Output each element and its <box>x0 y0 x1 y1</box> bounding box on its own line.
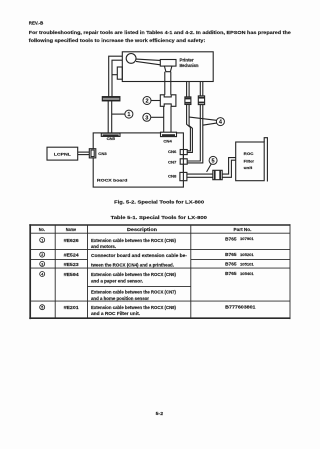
wire CN8 to bead <box>187 173 213 175</box>
ROCX board box <box>93 133 183 187</box>
svg-text:1: 1 <box>127 112 130 118</box>
svg-text:#E523: #E523 <box>64 262 80 267</box>
svg-text:and a home position sensor: and a home position sensor <box>91 296 149 301</box>
svg-text:CN3: CN3 <box>98 152 106 156</box>
no 4 circled <box>40 272 45 277</box>
wire head cable T to H <box>164 72 166 95</box>
T connector head <box>160 60 176 72</box>
wire home-position cable lower to CN7 <box>187 105 200 161</box>
svg-text:Part No.: Part No. <box>234 227 252 232</box>
motor tab on left of printer mechanism <box>117 67 122 79</box>
table row 4 <box>40 271 254 301</box>
svg-text:105401: 105401 <box>240 272 254 276</box>
svg-text:B765: B765 <box>225 236 237 241</box>
svg-text:5: 5 <box>212 159 215 165</box>
svg-text:Printer: Printer <box>180 57 195 62</box>
svg-text:and a ROC Filter unit.: and a ROC Filter unit. <box>91 311 140 316</box>
svg-text:5: 5 <box>41 306 43 310</box>
svg-text:REV.-B: REV.-B <box>29 20 44 25</box>
svg-text:3: 3 <box>145 115 148 121</box>
svg-text:#E524: #E524 <box>64 252 80 257</box>
ROC box top-right step <box>264 138 267 182</box>
column divider No/Name <box>54 225 56 318</box>
svg-text:#E626: #E626 <box>64 238 80 243</box>
svg-text:4: 4 <box>41 272 43 276</box>
svg-text:105201: 105201 <box>240 253 254 257</box>
wire branch to tab <box>112 74 117 76</box>
table header texts <box>39 227 252 232</box>
no 1 circled <box>40 238 45 243</box>
svg-text:105101: 105101 <box>240 263 254 267</box>
svg-text:Mechanism: Mechanism <box>180 63 199 68</box>
printer mechanism box <box>122 52 213 82</box>
board right edge over connectors <box>182 150 184 181</box>
svg-text:Extension cable between the RO: Extension cable between the ROCX (CN6) <box>91 272 177 277</box>
ROC filter unit box <box>236 142 265 181</box>
svg-text:following specified tools to i: following specified tools to increase th… <box>29 38 206 43</box>
svg-text:and a paper end sensor.: and a paper end sensor. <box>91 279 143 284</box>
no 2 circled <box>40 252 45 257</box>
callout 3 leader <box>151 116 164 118</box>
connector CN8 <box>180 172 187 180</box>
callout circle 2 <box>143 97 151 105</box>
connector CN7 <box>180 159 187 164</box>
row2 bottom rule right part <box>191 259 290 261</box>
table top border <box>29 224 290 226</box>
bead connector on ROC cable <box>213 170 222 179</box>
head cable wedge <box>136 59 160 60</box>
wire motor pair inner <box>112 60 122 96</box>
svg-text:ROCX board: ROCX board <box>97 177 128 182</box>
svg-text:unit: unit <box>244 165 253 170</box>
callout 4 leaders <box>189 117 216 120</box>
platen knob circle <box>126 54 136 64</box>
column divider Name/Description <box>87 225 89 318</box>
svg-text:CN7: CN7 <box>168 160 176 164</box>
svg-text:#E201: #E201 <box>64 305 80 310</box>
svg-text:2: 2 <box>145 99 148 105</box>
table bottom border <box>29 317 290 319</box>
row4 description inner rule <box>88 285 191 287</box>
svg-text:B765: B765 <box>225 262 237 267</box>
no 3 circled <box>40 261 45 266</box>
wire LCPNL to CN3 <box>78 151 90 153</box>
header bottom rule <box>30 232 290 234</box>
svg-text:B765: B765 <box>225 271 237 276</box>
svg-text:5-2: 5-2 <box>156 411 164 416</box>
callout circle 4 <box>216 118 224 126</box>
bead connector on paper-end cable <box>185 97 191 105</box>
svg-text:ROC: ROC <box>244 151 254 156</box>
table right border <box>289 224 291 319</box>
table row 3 <box>40 261 254 267</box>
row1 bottom rule <box>30 248 290 250</box>
svg-text:Table 5-1. Special Tools for L: Table 5-1. Special Tools for LX-800 <box>111 215 208 220</box>
callout 2 leader <box>151 100 160 102</box>
wire paper-end cable upper <box>186 82 188 97</box>
wire home-position cable upper <box>199 82 201 96</box>
table left border <box>29 224 31 319</box>
table row 1 <box>40 236 254 249</box>
connector CN4 <box>161 132 177 136</box>
svg-text:2: 2 <box>41 253 43 257</box>
wire motor pair outer <box>109 56 123 96</box>
svg-text:Extension cable between the RO: Extension cable between the ROCX (CN8) <box>91 305 177 310</box>
svg-text:1: 1 <box>41 238 43 242</box>
svg-text:CN4: CN4 <box>163 139 171 143</box>
no 5 circled <box>40 305 45 310</box>
svg-text:3: 3 <box>41 262 43 266</box>
callout 1 leader <box>112 113 125 115</box>
connector striped bar on motor cable <box>102 97 120 101</box>
svg-text:and motors.: and motors. <box>91 244 116 249</box>
callout circle 3 <box>143 113 151 121</box>
svg-text:Extension cable between the RO: Extension cable between the ROCX (CN5) <box>91 238 177 243</box>
svg-text:CN5: CN5 <box>107 137 115 141</box>
svg-text:B765: B765 <box>225 252 237 257</box>
connector board band H to CN4 <box>163 106 165 132</box>
connector CN5 <box>101 133 120 136</box>
row3 bottom rule <box>30 267 290 269</box>
connector CN6 <box>180 150 187 155</box>
connector CN3 <box>89 149 96 158</box>
row2 bottom rule left part <box>30 259 87 261</box>
svg-text:Filter: Filter <box>244 158 255 163</box>
svg-text:tween the ROCX (CN4) and a pri: tween the ROCX (CN4) and a printhead. <box>91 263 174 268</box>
table row 5 <box>40 304 257 316</box>
svg-text:LCPNL: LCPNL <box>54 151 72 156</box>
svg-text:B777603801: B777603801 <box>225 304 256 309</box>
bead connector on home-position cable <box>198 96 204 105</box>
svg-text:Description: Description <box>127 227 158 232</box>
wire motor cable below bar <box>107 101 109 133</box>
svg-text:CN6: CN6 <box>168 150 176 154</box>
table grid <box>29 224 290 319</box>
callout circle 1 <box>125 110 133 118</box>
callout 5 leader <box>207 164 212 172</box>
svg-text:107901: 107901 <box>240 237 254 241</box>
LCPNL box <box>47 147 78 160</box>
table row 2 <box>40 252 254 258</box>
svg-text:Extension cable between the RO: Extension cable between the ROCX (CN7) <box>91 290 177 295</box>
svg-text:No.: No. <box>39 227 45 232</box>
svg-text:Name: Name <box>66 227 77 232</box>
wire paper-end cable lower to CN6 <box>187 105 191 151</box>
svg-text:CN8: CN8 <box>168 175 176 179</box>
H spool connector <box>160 95 176 107</box>
svg-text:Fig. 5-2. Special Tools for LX: Fig. 5-2. Special Tools for LX-800 <box>114 200 204 205</box>
svg-text:For troubleshooting, repair to: For troubleshooting, repair tools are li… <box>29 30 291 35</box>
row4 bottom rule <box>30 300 290 302</box>
callout circle 5 <box>209 156 217 164</box>
column divider Description/PartNo <box>190 225 192 318</box>
svg-text:#E594: #E594 <box>64 272 80 277</box>
wire bead to ROC box <box>222 158 236 175</box>
svg-text:Connector board and extension: Connector board and extension cable be- <box>91 253 188 258</box>
